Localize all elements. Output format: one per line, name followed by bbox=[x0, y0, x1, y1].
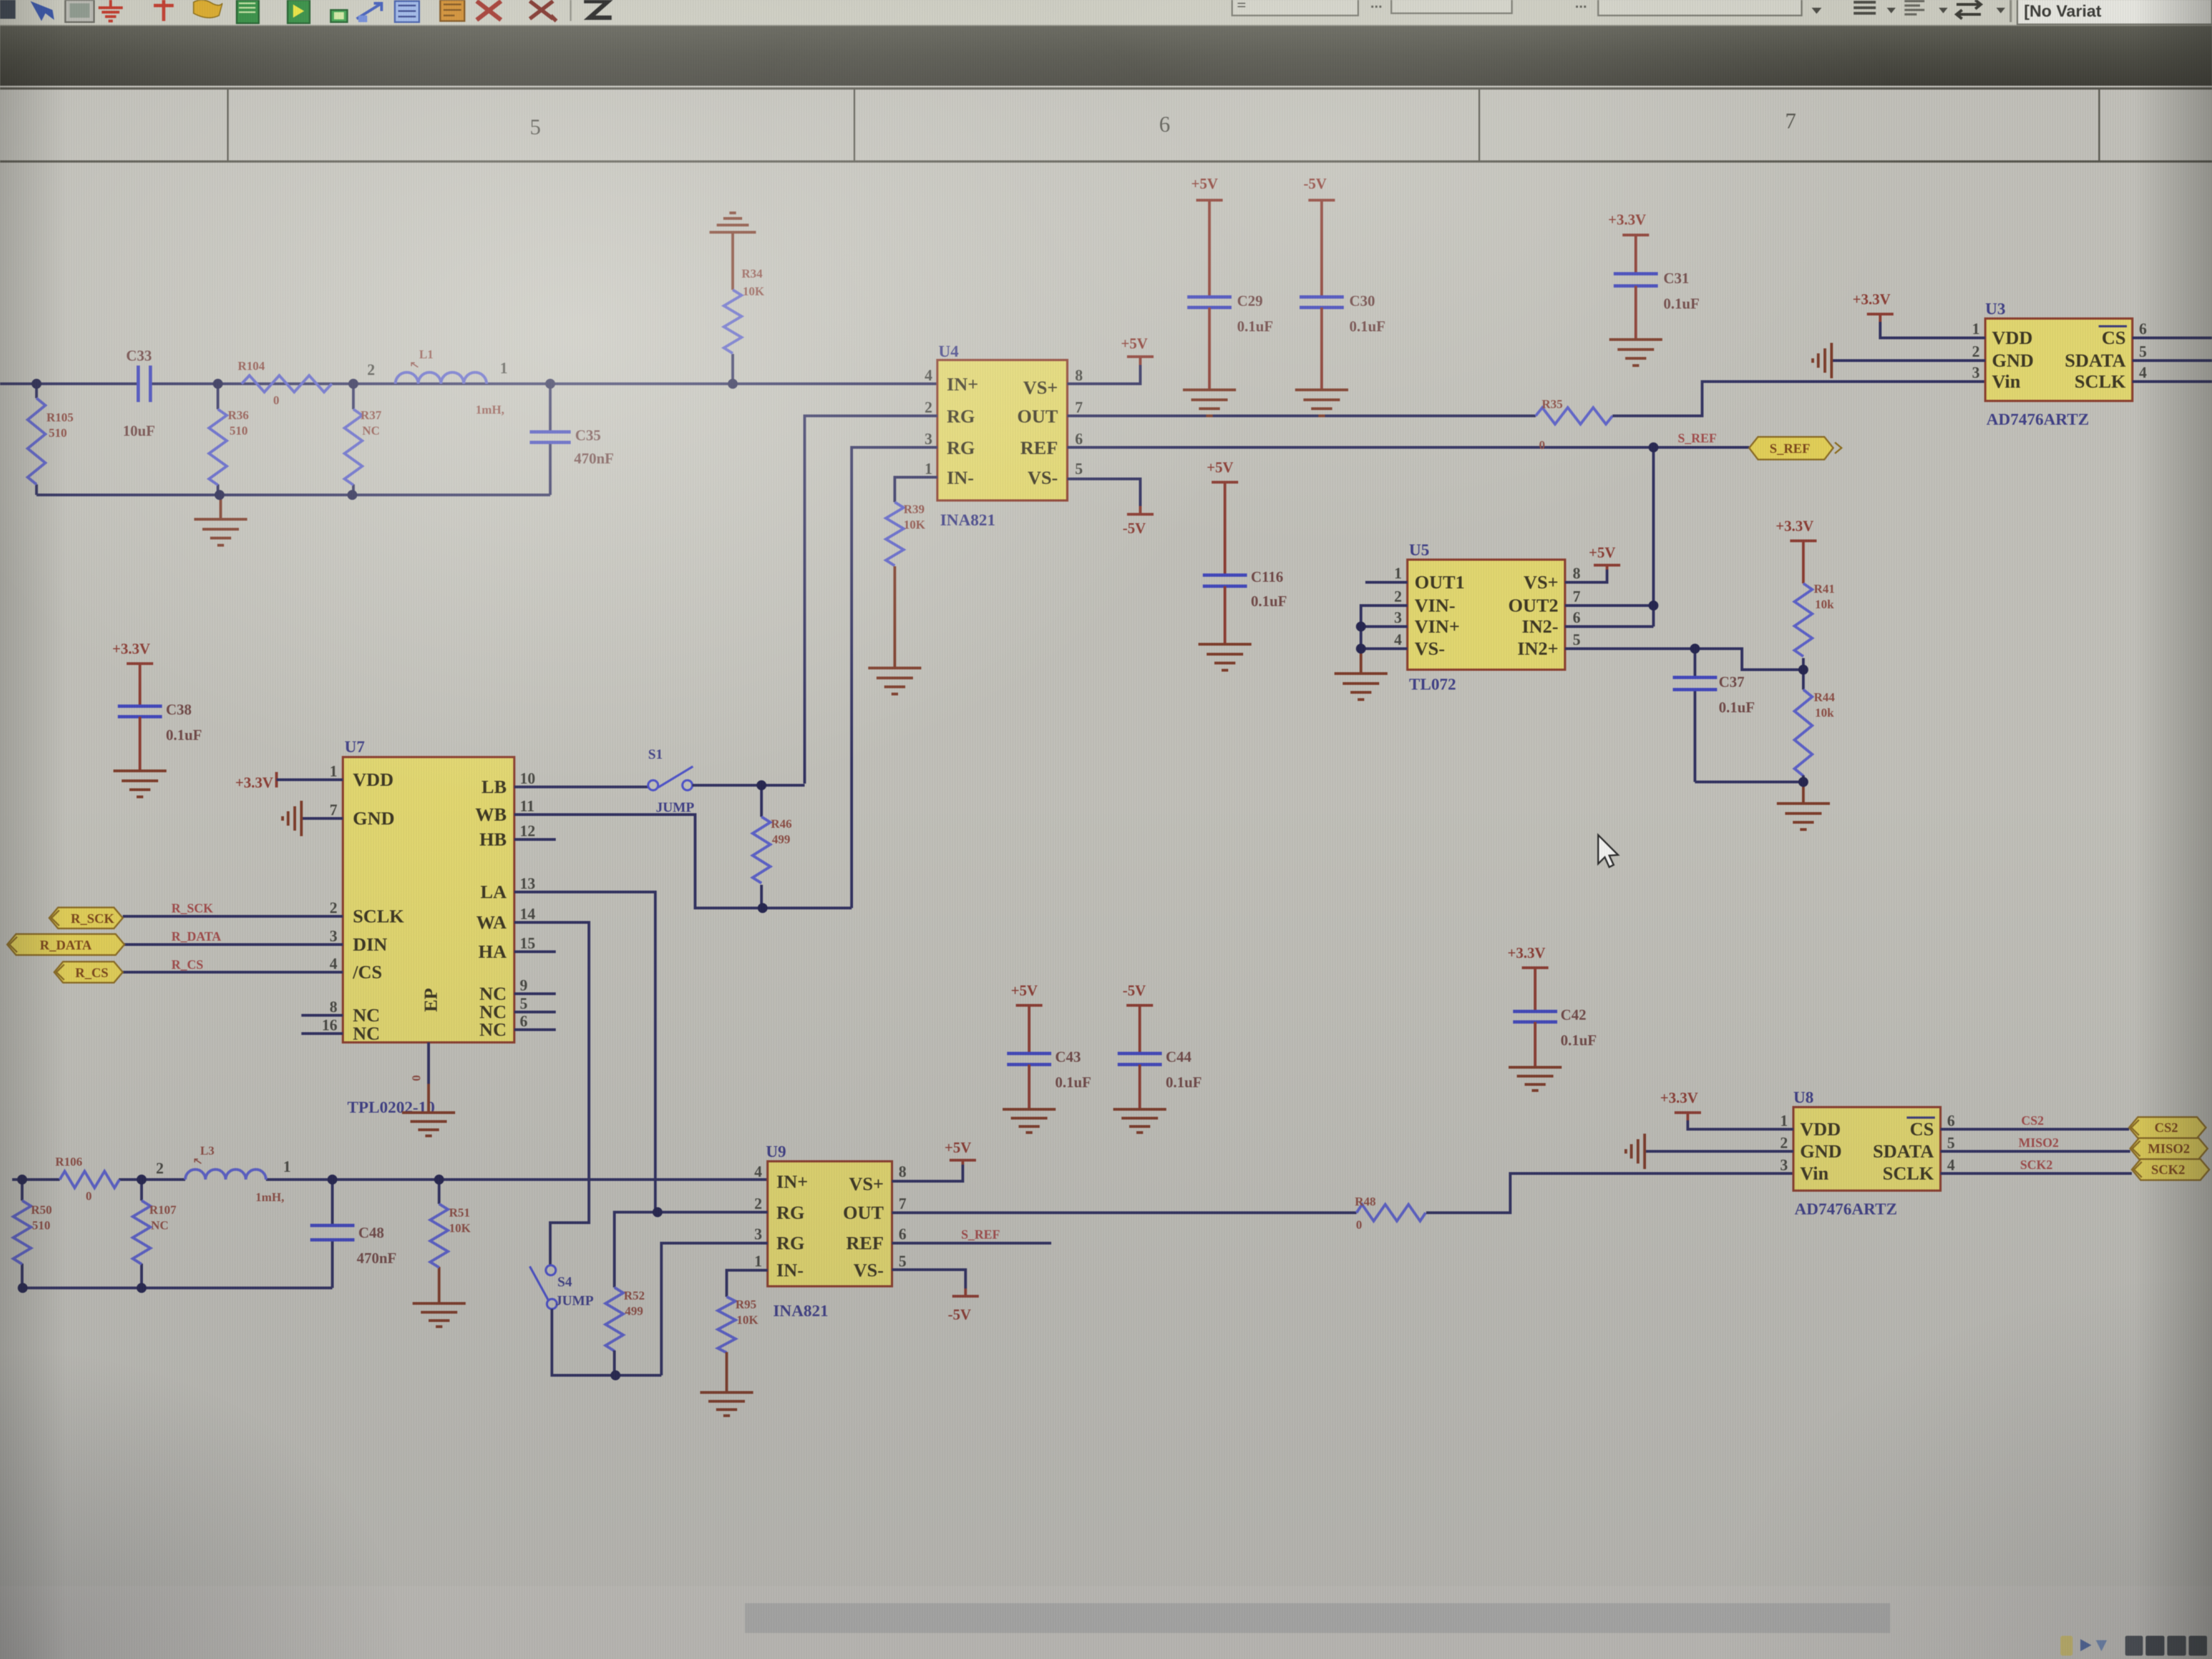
resistor R41 bbox=[1794, 549, 1812, 670]
svg-text:+3.3V: +3.3V bbox=[1853, 291, 1891, 307]
wire ch1 bottom rail bbox=[36, 384, 550, 495]
svg-text:R51: R51 bbox=[449, 1206, 470, 1219]
power +5V at U9 bbox=[945, 1139, 976, 1165]
svg-text:7: 7 bbox=[330, 802, 337, 819]
ground below R51 bbox=[413, 1303, 466, 1327]
capacitor C42 bbox=[1513, 975, 1557, 1067]
svg-text:7: 7 bbox=[1075, 399, 1083, 416]
port R_DATA bbox=[7, 934, 124, 955]
wire U3 pin4 SCLK bbox=[2132, 380, 2212, 383]
svg-text:GND: GND bbox=[1800, 1141, 1842, 1162]
svg-text:L1: L1 bbox=[419, 347, 434, 361]
resistor R48 bbox=[1357, 1204, 1426, 1221]
svg-text:SDATA: SDATA bbox=[2065, 351, 2126, 371]
pin names U9 left bbox=[776, 1172, 808, 1281]
capacitor C35 bbox=[530, 384, 571, 495]
svg-text:Vin: Vin bbox=[1800, 1164, 1829, 1184]
svg-text:OUT: OUT bbox=[1017, 406, 1058, 427]
wire U7 pin12 stub bbox=[514, 838, 556, 841]
svg-text:0: 0 bbox=[1356, 1218, 1362, 1232]
svg-text:U5: U5 bbox=[1409, 541, 1430, 559]
resistor R36 bbox=[209, 384, 227, 495]
pin numbers U9 right bbox=[899, 1164, 906, 1270]
svg-text:SCK2: SCK2 bbox=[2151, 1163, 2185, 1177]
svg-text:C48: C48 bbox=[358, 1224, 384, 1241]
pin names U5 left bbox=[1415, 572, 1465, 659]
svg-text:S_REF: S_REF bbox=[961, 1228, 1000, 1241]
svg-text:C30: C30 bbox=[1349, 293, 1375, 309]
svg-text:...: ... bbox=[1370, 0, 1383, 11]
wire U7 pin15 stub bbox=[514, 951, 556, 953]
ground below C29 bbox=[1183, 390, 1236, 416]
svg-text:R37: R37 bbox=[361, 408, 382, 422]
svg-text:EP: EP bbox=[421, 988, 441, 1012]
svg-text:4: 4 bbox=[754, 1164, 762, 1181]
svg-text:+3.3V: +3.3V bbox=[1507, 945, 1546, 961]
svg-text:3: 3 bbox=[925, 431, 932, 448]
capacitor C38 bbox=[118, 671, 162, 771]
svg-text:6: 6 bbox=[1947, 1113, 1955, 1130]
svg-text:510: 510 bbox=[229, 424, 248, 437]
svg-text:INA821: INA821 bbox=[773, 1302, 828, 1320]
svg-text:1: 1 bbox=[1394, 565, 1402, 582]
svg-text:VS-: VS- bbox=[1027, 468, 1058, 488]
svg-text:R34: R34 bbox=[742, 267, 763, 280]
wire U3 pin2 GND bbox=[1832, 359, 1985, 362]
svg-text:10: 10 bbox=[520, 770, 535, 787]
wire C37 bottom rail bbox=[1695, 781, 1803, 784]
port R_SCK bbox=[49, 907, 123, 928]
ground above R34 bbox=[709, 213, 756, 232]
wire ch2 main input net bbox=[12, 1178, 768, 1181]
svg-text:R50: R50 bbox=[31, 1203, 52, 1217]
wire U9 pin1 to R95 bbox=[727, 1270, 768, 1297]
svg-text:R35: R35 bbox=[1542, 397, 1563, 411]
wire ch2 bottom rail bbox=[22, 1180, 332, 1288]
toolbar right fields bbox=[1232, 0, 2212, 24]
svg-text:0: 0 bbox=[409, 1075, 423, 1081]
svg-text:14: 14 bbox=[520, 906, 535, 923]
wire U4 pin7 OUT bbox=[1067, 415, 1536, 418]
ground below EP bbox=[402, 1113, 455, 1136]
svg-text:+5V: +5V bbox=[1207, 459, 1234, 476]
svg-text:0: 0 bbox=[86, 1189, 92, 1203]
svg-text:0.1uF: 0.1uF bbox=[1166, 1074, 1202, 1091]
svg-text:AD7476ARTZ: AD7476ARTZ bbox=[1794, 1200, 1897, 1218]
mouse cursor bbox=[1598, 835, 1618, 867]
svg-text:VS-: VS- bbox=[853, 1260, 884, 1281]
pin numbers U5 left bbox=[1394, 565, 1402, 649]
svg-text:VS+: VS+ bbox=[849, 1174, 884, 1194]
svg-text:3: 3 bbox=[1394, 609, 1402, 627]
digital pot U7 bbox=[343, 757, 514, 1042]
wire S_REF vertical bbox=[1652, 447, 1655, 627]
svg-text:S1: S1 bbox=[648, 747, 662, 762]
svg-text:...: ... bbox=[1575, 0, 1587, 11]
svg-text:4: 4 bbox=[2139, 364, 2147, 382]
svg-text:U9: U9 bbox=[766, 1142, 786, 1161]
svg-text:0.1uF: 0.1uF bbox=[1055, 1074, 1091, 1091]
wire U7 pin1 VDD bbox=[276, 779, 343, 781]
svg-text:3: 3 bbox=[754, 1226, 762, 1243]
capacitor C37 bbox=[1673, 649, 1717, 782]
resistor R107 bbox=[133, 1180, 150, 1288]
svg-text:NC: NC bbox=[479, 984, 507, 1004]
power +3.3V at C31 bbox=[1608, 211, 1649, 243]
power -5V at U9 bbox=[948, 1288, 979, 1323]
adc U8 bbox=[1793, 1107, 1940, 1191]
ground below U5 bbox=[1334, 674, 1387, 700]
svg-text:7: 7 bbox=[1785, 108, 1796, 133]
svg-text:2: 2 bbox=[925, 399, 932, 416]
svg-text:1mH,: 1mH, bbox=[255, 1190, 284, 1204]
svg-text:510: 510 bbox=[49, 426, 67, 440]
pin numbers U7 left bbox=[322, 763, 337, 1034]
status bar strip bbox=[0, 1586, 2212, 1659]
svg-text:+3.3V: +3.3V bbox=[235, 774, 273, 791]
svg-text:AD7476ARTZ: AD7476ARTZ bbox=[1986, 410, 2089, 429]
svg-text:0.1uF: 0.1uF bbox=[1237, 318, 1273, 335]
toolbar icons bbox=[0, 0, 612, 23]
svg-text:R48: R48 bbox=[1355, 1194, 1376, 1208]
ground below C30 bbox=[1295, 390, 1348, 416]
svg-text:RG: RG bbox=[776, 1233, 805, 1254]
svg-text:2: 2 bbox=[156, 1160, 164, 1177]
svg-text:CS: CS bbox=[1910, 1119, 1934, 1140]
svg-text:R107: R107 bbox=[149, 1203, 176, 1217]
svg-text:6: 6 bbox=[1075, 431, 1083, 448]
ground below C43 bbox=[1003, 1109, 1056, 1133]
svg-text:10K: 10K bbox=[737, 1313, 758, 1327]
ground below C42 bbox=[1509, 1067, 1562, 1091]
pin names U8 left bbox=[1800, 1119, 1842, 1184]
inductor L3 bbox=[185, 1170, 266, 1180]
wire U5 pin6 IN2- bbox=[1565, 625, 1653, 628]
svg-text:S_REF: S_REF bbox=[1770, 442, 1810, 456]
svg-text:13: 13 bbox=[520, 875, 535, 893]
wire U5 pin1 stub bbox=[1365, 581, 1407, 584]
svg-text:R_DATA: R_DATA bbox=[40, 938, 92, 953]
resistor R104 bbox=[242, 375, 332, 392]
svg-text:3: 3 bbox=[330, 928, 337, 945]
svg-text:CS2: CS2 bbox=[2021, 1114, 2044, 1128]
svg-text:R95: R95 bbox=[735, 1297, 757, 1311]
power +5V at U5 bbox=[1589, 544, 1620, 570]
switch S4 bbox=[530, 1265, 557, 1309]
svg-text:NC: NC bbox=[151, 1218, 169, 1232]
svg-text:1: 1 bbox=[500, 360, 508, 377]
ground below C31 bbox=[1609, 340, 1662, 366]
svg-text:6: 6 bbox=[899, 1226, 906, 1243]
svg-text:CS2: CS2 bbox=[2154, 1121, 2178, 1135]
svg-text:IN+: IN+ bbox=[947, 374, 978, 395]
power -5V at C44 bbox=[1123, 982, 1153, 1013]
svg-text:+5V: +5V bbox=[945, 1139, 972, 1156]
svg-text:7: 7 bbox=[899, 1196, 906, 1213]
svg-text:0.1uF: 0.1uF bbox=[166, 727, 202, 743]
svg-text:0.1uF: 0.1uF bbox=[1719, 699, 1755, 716]
svg-text:SCLK: SCLK bbox=[2074, 372, 2126, 392]
svg-text:R46: R46 bbox=[771, 817, 792, 831]
svg-text:11: 11 bbox=[520, 798, 534, 815]
wire U3 pin5 SDATA bbox=[2132, 359, 2212, 362]
resistor R52 bbox=[606, 1287, 623, 1375]
svg-text:1mH,: 1mH, bbox=[476, 403, 504, 416]
svg-text:S_REF: S_REF bbox=[1678, 431, 1717, 445]
svg-text:L3: L3 bbox=[200, 1144, 215, 1157]
wire U4 pin5 to -5V bbox=[1067, 479, 1140, 512]
port R_CS bbox=[54, 962, 123, 983]
wire U4 pin8 to +5V bbox=[1067, 357, 1140, 384]
svg-text:NC: NC bbox=[353, 1005, 380, 1026]
ground rotated at U8 bbox=[1626, 1134, 1645, 1169]
svg-text:[No Variat: [No Variat bbox=[2024, 2, 2101, 20]
svg-text:10k: 10k bbox=[1815, 706, 1834, 719]
svg-text:VDD: VDD bbox=[1992, 328, 2033, 348]
pin numbers U3 right bbox=[2139, 321, 2147, 382]
resistor R34 bbox=[724, 232, 742, 384]
svg-text:WB: WB bbox=[475, 805, 507, 825]
ground below C116 bbox=[1198, 644, 1251, 670]
svg-text:5: 5 bbox=[520, 995, 528, 1013]
wire U7 pins 9-5-6 stubs bbox=[514, 994, 556, 1030]
svg-text:470nF: 470nF bbox=[357, 1250, 397, 1266]
pin names U8 right bbox=[1873, 1119, 1934, 1184]
resistor R35 bbox=[1536, 408, 1613, 424]
capacitor C48 bbox=[310, 1180, 354, 1288]
wire U4 pin6 REF bbox=[1067, 446, 1749, 449]
wire U8 pin1 VDD bbox=[1688, 1120, 1793, 1129]
pin numbers U8 right bbox=[1947, 1113, 1955, 1174]
svg-text:-5V: -5V bbox=[1303, 175, 1327, 192]
capacitor C44 bbox=[1118, 1013, 1162, 1109]
svg-text:MISO2: MISO2 bbox=[2148, 1142, 2190, 1156]
wire U7 pin10 to S1 bbox=[514, 786, 648, 789]
pin numbers U8 left bbox=[1780, 1113, 1788, 1174]
wire U7 pin13 down bbox=[514, 892, 655, 1212]
svg-text:IN2-: IN2- bbox=[1522, 617, 1558, 637]
svg-text:8: 8 bbox=[899, 1164, 906, 1181]
svg-text:499: 499 bbox=[625, 1304, 643, 1318]
resistor R51 bbox=[430, 1180, 448, 1303]
wire U7 pin2 SCLK bbox=[123, 915, 343, 918]
svg-text:+5V: +5V bbox=[1121, 335, 1148, 352]
svg-text:SCLK: SCLK bbox=[1882, 1164, 1934, 1184]
svg-text:2: 2 bbox=[1394, 588, 1402, 606]
svg-text:JUMP: JUMP bbox=[656, 800, 694, 815]
svg-text:+3.3V: +3.3V bbox=[112, 640, 150, 657]
svg-text:U4: U4 bbox=[938, 342, 959, 361]
pin U7 EP bbox=[427, 1042, 430, 1113]
overbar CS U3 bbox=[2099, 325, 2127, 327]
op-amp U4 bbox=[937, 360, 1067, 500]
power +3.3V at U3 bbox=[1853, 291, 1893, 322]
svg-text:0.1uF: 0.1uF bbox=[1663, 295, 1699, 312]
pin numbers U9 left bbox=[754, 1164, 762, 1270]
svg-text:8: 8 bbox=[1075, 367, 1083, 384]
wire U4 pin1 to R39 bbox=[895, 477, 937, 502]
svg-text:GND: GND bbox=[353, 808, 395, 829]
ground ch1 rail bbox=[194, 495, 247, 545]
svg-text:C31: C31 bbox=[1663, 270, 1689, 286]
svg-text:TL072: TL072 bbox=[1409, 675, 1456, 693]
svg-text:2: 2 bbox=[330, 900, 337, 917]
dark band under toolbar bbox=[0, 26, 2212, 86]
svg-text:NC: NC bbox=[479, 1020, 507, 1040]
svg-text:DIN: DIN bbox=[353, 935, 388, 955]
svg-text:5: 5 bbox=[2139, 343, 2147, 361]
svg-text:VDD: VDD bbox=[1800, 1119, 1841, 1140]
wire U7 pin8 pin16 stubs bbox=[301, 1015, 343, 1034]
status icons bottom right bbox=[2060, 1636, 2207, 1656]
power +3.3V port at U7 pin1 bbox=[235, 772, 276, 791]
pin names U3 right bbox=[2065, 328, 2126, 392]
resistor R46 bbox=[753, 785, 770, 908]
svg-text:VIN+: VIN+ bbox=[1415, 617, 1460, 637]
svg-text:C29: C29 bbox=[1237, 293, 1263, 309]
svg-text:NC: NC bbox=[353, 1024, 380, 1044]
svg-text:470nF: 470nF bbox=[574, 450, 614, 467]
svg-text:R104: R104 bbox=[238, 359, 265, 373]
svg-text:1: 1 bbox=[754, 1253, 762, 1270]
svg-text:15: 15 bbox=[520, 935, 535, 952]
svg-text:VS-: VS- bbox=[1415, 639, 1445, 659]
svg-text:10K: 10K bbox=[743, 284, 764, 298]
svg-text:VS+: VS+ bbox=[1524, 572, 1558, 593]
wire U8 pin2 GND bbox=[1645, 1150, 1793, 1153]
svg-text:MISO2: MISO2 bbox=[2018, 1136, 2059, 1150]
svg-text:R106: R106 bbox=[55, 1155, 82, 1168]
resistor R39 bbox=[886, 502, 904, 668]
wire R48 to U8 Vin bbox=[1426, 1173, 1793, 1213]
svg-text:R36: R36 bbox=[228, 408, 249, 422]
svg-text:IN-: IN- bbox=[776, 1260, 804, 1281]
wire U7 pin4 CS bbox=[123, 971, 343, 974]
svg-text:0.1uF: 0.1uF bbox=[1251, 593, 1287, 609]
power +5V at C43 bbox=[1011, 982, 1042, 1013]
svg-text:+3.3V: +3.3V bbox=[1776, 518, 1814, 534]
svg-text:1: 1 bbox=[925, 461, 932, 478]
svg-text:4: 4 bbox=[925, 367, 932, 384]
capacitor C29 bbox=[1187, 208, 1232, 390]
wire U7 pin14 to S4 bbox=[514, 922, 589, 1265]
svg-text:+5V: +5V bbox=[1191, 175, 1218, 192]
resistor R37 bbox=[345, 384, 362, 495]
wire U9 pin3 up from rail bbox=[661, 1243, 768, 1375]
power +5V at U4 bbox=[1121, 335, 1154, 365]
svg-text:OUT1: OUT1 bbox=[1415, 572, 1465, 593]
svg-text:U8: U8 bbox=[1793, 1088, 1814, 1107]
svg-text:+3.3V: +3.3V bbox=[1608, 211, 1646, 228]
svg-text:LA: LA bbox=[481, 882, 507, 902]
wire U5 pin8 to +5V bbox=[1565, 567, 1607, 582]
wire R35 to U3 Vin bbox=[1613, 382, 1985, 416]
capacitor C33 bbox=[138, 366, 150, 402]
wire IN2+ to divider bbox=[1695, 649, 1803, 670]
wire U4 pin2 down bbox=[805, 416, 937, 784]
svg-text:IN2+: IN2+ bbox=[1517, 639, 1558, 659]
svg-text:LB: LB bbox=[482, 777, 507, 797]
wire U3 pin1 VDD bbox=[1880, 322, 1985, 338]
svg-text:HB: HB bbox=[479, 830, 507, 850]
power -5V at C30 bbox=[1303, 175, 1335, 208]
svg-text:RG: RG bbox=[947, 438, 975, 458]
svg-text:10k: 10k bbox=[1815, 597, 1834, 611]
pin numbers U4 right bbox=[1075, 367, 1083, 478]
power +5V at C116 bbox=[1207, 459, 1238, 490]
svg-text:+3.3V: +3.3V bbox=[1660, 1089, 1698, 1106]
pin names U9 right bbox=[843, 1174, 884, 1281]
resistor R105 bbox=[28, 398, 45, 484]
wire U9 pin2 to R52 top bbox=[614, 1212, 768, 1287]
ground below C38 bbox=[113, 771, 166, 797]
svg-text:6: 6 bbox=[2139, 321, 2147, 338]
svg-text:4: 4 bbox=[1947, 1157, 1955, 1174]
ground below R95 bbox=[700, 1392, 753, 1416]
capacitor C30 bbox=[1300, 208, 1344, 390]
wire U3 pin6 CS bbox=[2132, 337, 2212, 340]
svg-text:S4: S4 bbox=[557, 1275, 572, 1290]
power +3.3V at U8 bbox=[1660, 1089, 1701, 1120]
svg-text:JUMP: JUMP bbox=[555, 1293, 593, 1308]
svg-text:10K: 10K bbox=[904, 518, 925, 531]
toolbar background bbox=[0, 0, 2212, 27]
wire U8 pin5 SDATA bbox=[1940, 1150, 2130, 1153]
svg-text:OUT: OUT bbox=[843, 1203, 884, 1223]
svg-text:R_CS: R_CS bbox=[75, 966, 108, 980]
svg-text:SDATA: SDATA bbox=[1873, 1141, 1934, 1162]
svg-text:0: 0 bbox=[1539, 438, 1545, 452]
svg-text:C43: C43 bbox=[1055, 1048, 1081, 1065]
svg-text:IN-: IN- bbox=[947, 468, 974, 488]
svg-text:+5V: +5V bbox=[1589, 544, 1616, 561]
svg-text:R_SCK: R_SCK bbox=[71, 912, 114, 926]
svg-text:10K: 10K bbox=[449, 1221, 471, 1235]
pin numbers U5 right bbox=[1573, 565, 1580, 649]
svg-text:R44: R44 bbox=[1814, 690, 1835, 704]
port CS2 bbox=[2129, 1117, 2206, 1138]
svg-text:2: 2 bbox=[1780, 1135, 1788, 1152]
svg-text:6: 6 bbox=[520, 1013, 528, 1030]
svg-text:6: 6 bbox=[1573, 609, 1580, 627]
pin names U4 right bbox=[1017, 378, 1058, 488]
port SCK2 bbox=[2132, 1159, 2209, 1180]
wire U7 pin11 to R46 bottom bbox=[514, 815, 852, 908]
op-amp U9 bbox=[768, 1161, 892, 1286]
svg-text:5: 5 bbox=[1947, 1135, 1955, 1152]
svg-text:2: 2 bbox=[1972, 343, 1980, 361]
wire U9 pin5 to -5V bbox=[892, 1270, 966, 1294]
svg-text:16: 16 bbox=[322, 1017, 337, 1034]
svg-text:8: 8 bbox=[330, 999, 337, 1016]
svg-text:-5V: -5V bbox=[948, 1306, 971, 1323]
svg-text:C38: C38 bbox=[166, 701, 192, 718]
pin names U7 left bbox=[352, 770, 404, 1044]
power +3.3V at R41 bbox=[1776, 518, 1817, 549]
svg-text:0: 0 bbox=[273, 393, 279, 407]
svg-text:RG: RG bbox=[947, 406, 975, 427]
svg-text:R_CS: R_CS bbox=[171, 958, 204, 972]
sheet border header row bbox=[0, 88, 2212, 161]
svg-text:3: 3 bbox=[1780, 1157, 1788, 1174]
svg-text:499: 499 bbox=[772, 832, 790, 846]
svg-text:C35: C35 bbox=[575, 427, 601, 444]
wire U9 pin7 OUT bbox=[892, 1212, 1357, 1214]
svg-text:SCLK: SCLK bbox=[353, 906, 404, 927]
svg-text:8: 8 bbox=[1573, 565, 1580, 582]
svg-text:R52: R52 bbox=[624, 1288, 645, 1302]
svg-text:VDD: VDD bbox=[353, 770, 394, 790]
